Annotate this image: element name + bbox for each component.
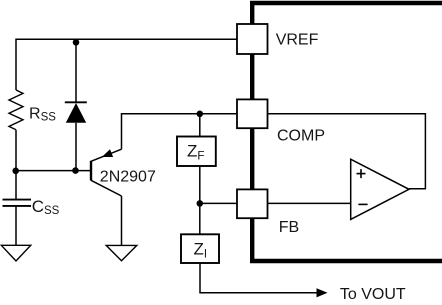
ground (under transistor) — [106, 245, 137, 260]
capacitor CSS — [3, 200, 32, 206]
pin COMP — [237, 99, 268, 128]
wire: ZF to FB junction — [199, 166, 201, 203]
pin FB — [237, 189, 268, 218]
node: diode/base junction — [72, 167, 79, 174]
op-amp minus input mark — [358, 203, 367, 205]
wire: FB pin to op-amp inverting input — [268, 202, 351, 204]
wire: capacitor to ground — [15, 206, 17, 245]
resistor RSS — [9, 90, 23, 130]
node: COMP / ZF junction — [197, 111, 204, 118]
wire: diode bottom to base node — [75, 123, 77, 171]
block ZI — [181, 234, 219, 263]
wire: junction to FB pin — [200, 202, 237, 204]
node: top junction (diode tap) — [73, 39, 80, 46]
svg-text:COMP: COMP — [277, 128, 325, 145]
ground (left) — [1, 245, 30, 261]
svg-text:RSS: RSS — [29, 105, 56, 123]
transistor Q1 2N2907 (PNP) — [91, 149, 122, 196]
svg-text:CSS: CSS — [32, 197, 60, 217]
node: FB / Z junction — [197, 200, 204, 207]
node: left junction at base wire — [12, 168, 19, 175]
wire: ZI to VOUT arrow — [200, 263, 322, 293]
wire: junction to ZF — [199, 114, 201, 137]
svg-text:VREF: VREF — [276, 31, 319, 48]
diode D1 (cathode up) — [65, 102, 87, 123]
wire: collector down to ground — [121, 196, 123, 245]
wire: VREF pin to top-left corner and down left side — [16, 39, 237, 90]
pin VREF — [237, 24, 268, 54]
arrowhead: To VOUT — [317, 288, 328, 297]
op-amp U1 — [351, 159, 409, 219]
wire: base wire to transistor — [16, 170, 91, 172]
wire: emitter up to COMP wire — [122, 114, 238, 149]
wire: COMP feedback loop to op-amp output — [268, 114, 426, 189]
op-amp plus input mark — [357, 169, 366, 178]
wire: diode anode-top segment — [75, 39, 77, 102]
svg-text:FB: FB — [279, 219, 299, 236]
wire: junction to ZI — [199, 203, 201, 234]
IC boundary (thick bracket edge) — [252, 3, 442, 261]
svg-text:To VOUT: To VOUT — [340, 286, 406, 303]
svg-text:2N2907: 2N2907 — [100, 168, 156, 185]
block ZF — [177, 137, 216, 167]
wire: resistor to capacitor — [15, 130, 17, 200]
